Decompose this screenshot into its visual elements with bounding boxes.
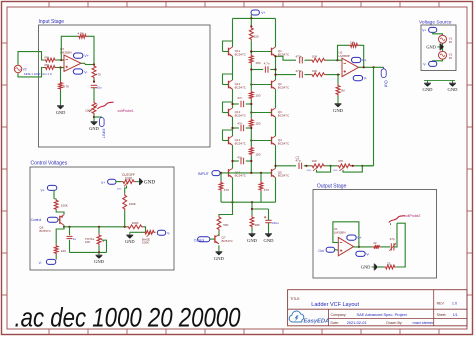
wire tail to 180 and 220u xyxy=(252,202,269,209)
wire U2 output xyxy=(359,66,384,68)
wire 560 to Q7 collector xyxy=(218,231,220,236)
resistor 10K upper xyxy=(311,58,327,62)
svg-text:22: 22 xyxy=(373,241,377,245)
control bottom wire xyxy=(70,251,107,253)
svg-text:GND: GND xyxy=(144,180,155,186)
wire 470 to cap 10u xyxy=(93,79,95,83)
svg-text:BC547C: BC547C xyxy=(235,174,247,178)
svg-text:Sheet:: Sheet: xyxy=(437,313,447,317)
capacitor 47n boundary C xyxy=(233,127,239,129)
wire to BASE pot xyxy=(143,227,145,233)
resistor 150 ladder D xyxy=(249,146,253,156)
svg-text:INPUT: INPUT xyxy=(102,129,106,139)
Input Stage section box xyxy=(39,25,211,147)
center rail segment C-D xyxy=(250,128,252,146)
wire tap lower to 470n xyxy=(276,74,297,76)
svg-text:47p: 47p xyxy=(296,159,301,163)
svg-text:GND: GND xyxy=(214,256,225,261)
control summing wire xyxy=(64,226,127,228)
svg-text:470: 470 xyxy=(264,188,269,192)
svg-text:10K: 10K xyxy=(312,55,317,59)
svg-text:TITLE:: TITLE: xyxy=(290,297,300,301)
resistor 10K lower xyxy=(311,73,327,77)
svg-text:LM358P: LM358P xyxy=(338,54,350,58)
svg-text:Out: Out xyxy=(318,249,323,253)
center rail segment B-C xyxy=(250,100,252,118)
resistor 4.7K feedback xyxy=(78,34,88,38)
wire Q6 collector node xyxy=(63,225,65,227)
svg-text:150: 150 xyxy=(255,152,260,156)
net flag INPUT (vertical) in input stage xyxy=(94,116,102,118)
transistor Q15 BC547C (left ladder) xyxy=(228,169,230,177)
ground below 1M xyxy=(337,101,339,103)
svg-text:V+: V+ xyxy=(261,11,265,15)
base wire Q2 to center rail xyxy=(251,84,271,86)
svg-text:maxi steiner: maxi steiner xyxy=(413,320,435,325)
capacitor 470n upper xyxy=(299,57,301,63)
svg-text:1M: 1M xyxy=(340,88,345,92)
wire tap upper to 470n xyxy=(276,56,297,60)
transistor Q5 BC547C (right ladder) xyxy=(271,169,273,177)
resistor 470 output load xyxy=(92,65,96,80)
EasyEDA logo xyxy=(289,311,304,322)
return wire loop output stage xyxy=(396,223,405,267)
wiper wire 47K pot xyxy=(343,166,362,172)
wire U3 output xyxy=(81,62,85,64)
svg-text:INPUT: INPUT xyxy=(198,172,210,176)
wire Q5 collector to chain xyxy=(276,165,297,167)
right column top wire xyxy=(275,18,277,47)
svg-text:V-: V- xyxy=(167,231,170,235)
potentiometer 10K resonance xyxy=(311,164,326,168)
svg-text:1/1: 1/1 xyxy=(453,313,458,317)
voltage source V2 sine input xyxy=(14,65,21,72)
svg-text:2021-02-01: 2021-02-01 xyxy=(347,320,367,325)
svg-text:Output Stage: Output Stage xyxy=(317,184,347,190)
svg-text:47p: 47p xyxy=(390,237,395,241)
transistor Q13 BC547C (left ladder) xyxy=(228,109,230,117)
svg-text:BC547C: BC547C xyxy=(278,85,290,89)
Voltage Source section box xyxy=(421,25,456,71)
Control Voltages section box xyxy=(30,167,174,270)
ground pair below voltage source xyxy=(424,79,455,81)
frame column ticks bottom xyxy=(48,329,50,335)
svg-text:470: 470 xyxy=(96,73,101,77)
svg-text:100K: 100K xyxy=(61,204,68,208)
wire cap to potentiometer 100K xyxy=(93,88,95,101)
svg-text:220: 220 xyxy=(61,249,66,253)
wire 47p to top node xyxy=(394,223,397,247)
wiper wire TOTAL pot xyxy=(103,240,107,252)
node inverting input U3 xyxy=(60,59,62,61)
resistor 47K input upper xyxy=(44,58,57,62)
diode loop wire Q14 xyxy=(223,130,233,141)
feedback loop U2 with resistor 1M xyxy=(338,45,350,60)
svg-text:V-: V- xyxy=(39,261,42,265)
resistor 560 current source xyxy=(217,216,221,232)
svg-text:50%: 50% xyxy=(117,189,121,191)
frame row ticks right xyxy=(467,42,473,44)
resistor 220 control xyxy=(54,244,58,255)
svg-text:560: 560 xyxy=(223,223,228,227)
capacitor 220u electrolytic xyxy=(265,219,271,221)
center rail segment top xyxy=(250,41,252,54)
ground mid (sideways) xyxy=(437,46,439,48)
left column inter-row wires xyxy=(232,56,234,80)
svg-text:GND: GND xyxy=(89,126,99,131)
voltage probe voltProbe2 xyxy=(389,216,405,223)
wire BASE pot left to ground xyxy=(130,231,144,233)
svg-text:10K: 10K xyxy=(312,159,317,163)
svg-text:1u: 1u xyxy=(73,237,77,241)
transistor Q12 BC547C (left ladder) xyxy=(228,81,230,89)
wire 100K to Q6 xyxy=(56,211,64,215)
svg-text:V2: V2 xyxy=(23,68,27,72)
capacitor 4.7n boundary A xyxy=(251,69,263,71)
svg-text:GND: GND xyxy=(426,44,436,49)
svg-text:10u: 10u xyxy=(97,86,102,90)
ground below Q7 xyxy=(218,249,220,251)
ground control mid xyxy=(98,252,100,254)
svg-text:150: 150 xyxy=(255,122,260,126)
svg-text:GND: GND xyxy=(247,238,258,243)
wiper wire 10K pot xyxy=(317,166,331,172)
svg-text:50%: 50% xyxy=(307,170,311,172)
svg-text:47K: 47K xyxy=(338,159,343,163)
svg-text:220u: 220u xyxy=(272,221,279,225)
wire U1 output xyxy=(354,246,373,248)
svg-text:SAE Advanced Spec. Project: SAE Advanced Spec. Project xyxy=(357,312,408,317)
svg-text:10K: 10K xyxy=(85,240,90,244)
wire pot to GND xyxy=(93,115,95,119)
svg-text:V+: V+ xyxy=(357,236,362,240)
power flag V- base xyxy=(157,230,165,235)
resistor 100K control upper xyxy=(54,199,58,211)
potentiometer TOTAL 10K xyxy=(98,227,100,234)
svg-text:V+: V+ xyxy=(362,59,367,63)
voltage probe voltProbe1 xyxy=(98,102,114,109)
transistor Q14 BC547C (left ladder) xyxy=(228,137,230,145)
svg-text:470n: 470n xyxy=(296,69,303,73)
svg-text:GND: GND xyxy=(448,87,459,92)
wire V+ to V1 xyxy=(433,32,443,35)
svg-text:GND: GND xyxy=(125,239,135,244)
diode loop wire Q13 xyxy=(223,102,233,113)
resistor 150 ladder C xyxy=(249,118,253,128)
center rail segment A-B xyxy=(250,65,252,91)
svg-text:100K: 100K xyxy=(125,176,133,180)
center rail segment bottom xyxy=(250,156,252,173)
svg-text:GND: GND xyxy=(361,264,371,269)
diode loop wire Q11 xyxy=(223,41,233,52)
svg-text:Control Voltages: Control Voltages xyxy=(31,161,68,167)
wire tail node xyxy=(220,192,222,203)
trimmer capacitor 47p output xyxy=(390,243,392,250)
svg-text:SINE 1 1000 10m 1.0: SINE 1 1000 10m 1.0 xyxy=(24,72,52,76)
base wire Q3 to center rail xyxy=(251,112,271,114)
transistor Q11 BC547C (left ladder) xyxy=(228,48,230,56)
mid node wire xyxy=(442,43,444,51)
wire INPUT to ladder bottom bases xyxy=(220,172,271,174)
svg-text:V-: V- xyxy=(423,62,426,66)
power flag V+ ladder top xyxy=(251,10,259,15)
wiper wire CUTOFF to 100K vertical xyxy=(125,186,127,194)
svg-text:10K: 10K xyxy=(312,69,317,73)
base wire Q4 to center rail xyxy=(251,140,271,142)
svg-text:V+: V+ xyxy=(101,181,105,185)
wire 180 to ground xyxy=(251,228,253,231)
resistor 470 left tail xyxy=(220,173,222,181)
wire 47K to op-amp inputs xyxy=(57,59,65,61)
source V2 16 xyxy=(439,51,447,59)
svg-text:100K: 100K xyxy=(142,241,149,245)
svg-text:180: 180 xyxy=(255,223,260,227)
svg-text:BC557C: BC557C xyxy=(39,229,51,233)
capacitor 47n boundary D xyxy=(233,160,239,162)
svg-text:GND: GND xyxy=(333,108,344,113)
wire 4.7K to ground xyxy=(60,91,62,104)
svg-text:V+: V+ xyxy=(84,54,89,58)
capacitor 47n boundary B xyxy=(233,103,239,105)
svg-text:4.7n: 4.7n xyxy=(264,61,270,65)
ground below 180 xyxy=(251,231,253,233)
wire V2 top to input resistor R 47K#1 xyxy=(18,52,44,65)
svg-text:47n: 47n xyxy=(237,155,242,159)
wire to resistor 560 xyxy=(219,202,233,215)
svg-text:22: 22 xyxy=(387,261,391,265)
base wire Q1 to center rail xyxy=(251,51,271,53)
transistor Q7 BC547C tail driver xyxy=(214,235,216,243)
svg-text:GND: GND xyxy=(264,238,275,243)
resistor 470 right tail xyxy=(260,173,262,181)
svg-text:BC547C: BC547C xyxy=(235,113,247,117)
svg-text:GND: GND xyxy=(56,110,66,115)
svg-text:Drawn By:: Drawn By: xyxy=(386,321,402,325)
svg-text:47K: 47K xyxy=(44,63,49,67)
svg-text:voltProbe1: voltProbe1 xyxy=(118,109,134,113)
svg-text:BC547C: BC547C xyxy=(278,52,290,56)
left emitter to tail xyxy=(232,178,234,203)
svg-text:V+: V+ xyxy=(422,28,426,32)
frame row ticks left xyxy=(2,42,8,44)
resistor 150 ladder B xyxy=(249,90,253,100)
svg-text:1M: 1M xyxy=(350,40,355,44)
resistor 150 ladder A xyxy=(249,54,253,65)
op-amp U2 LM358P xyxy=(342,58,359,76)
transistor Q3 BC547C (right ladder) xyxy=(271,109,273,117)
capacitor 10u xyxy=(91,84,97,86)
wire V2 bottom to input resistor R 47K#2 xyxy=(18,68,44,77)
svg-text:voltProbe2: voltProbe2 xyxy=(404,214,420,218)
potentiometer 100K output level xyxy=(92,101,96,115)
svg-text:50%: 50% xyxy=(333,170,337,172)
resistor 100K cutoff vertical xyxy=(123,194,127,211)
svg-text:BC547C: BC547C xyxy=(235,141,247,145)
power flag V- of U1 xyxy=(356,251,365,256)
transistor Q2 BC547C (right ladder) xyxy=(271,81,273,89)
svg-text:BC547C: BC547C xyxy=(278,174,290,178)
capacitor 470n lower xyxy=(299,71,301,77)
svg-text:220: 220 xyxy=(254,34,259,38)
potentiometer CUTOFF 100K xyxy=(122,180,136,184)
svg-text:16: 16 xyxy=(449,56,453,60)
diode loop wire Q12 xyxy=(223,74,233,85)
svg-text:BC547C: BC547C xyxy=(222,239,234,243)
svg-text:100K: 100K xyxy=(129,202,136,206)
transistor Q6 BC557C (PNP) xyxy=(59,216,61,224)
wire Q7 emitter to ground xyxy=(218,245,220,249)
svg-text:Ladder VCF Layout: Ladder VCF Layout xyxy=(311,302,359,308)
resistor 180 tail xyxy=(250,216,254,229)
svg-text:470n: 470n xyxy=(296,55,303,59)
resistor 220 ladder top xyxy=(249,26,253,41)
potentiometer 47K resonance xyxy=(337,164,352,168)
svg-text:Input Stage: Input Stage xyxy=(39,19,65,25)
ground right of CUTOFF xyxy=(136,181,137,183)
source V1 16 xyxy=(439,35,447,43)
svg-text:EasyEDA: EasyEDA xyxy=(304,319,330,325)
op-amp U3 LM358N xyxy=(64,55,81,72)
svg-text:BC547C: BC547C xyxy=(278,141,290,145)
ladder top rail wire xyxy=(233,17,276,19)
svg-text:REV: REV xyxy=(437,302,445,306)
ground below 220u xyxy=(268,231,270,233)
wire V+ to resistor 220 xyxy=(250,18,252,26)
svg-text:100K: 100K xyxy=(132,221,139,225)
svg-text:GND: GND xyxy=(94,259,105,264)
resistor 1M to ground from U2 plus input xyxy=(337,74,339,76)
power flag V- of U3 xyxy=(73,69,82,74)
svg-text:150: 150 xyxy=(255,94,260,98)
capacitor 1u control xyxy=(69,227,71,235)
power flag V- control xyxy=(55,255,57,260)
net flag Out vertical at U2 output xyxy=(381,69,386,78)
title block outline xyxy=(288,290,467,326)
svg-text:Date:: Date: xyxy=(331,321,339,325)
svg-text:GND: GND xyxy=(423,87,434,92)
node non-inverting input U3 xyxy=(59,66,61,68)
ground below potentiometer xyxy=(93,119,95,121)
feedback wire U1 xyxy=(333,222,359,247)
resistor 22 output xyxy=(372,245,381,249)
Output Stage section box xyxy=(313,190,437,279)
transistor Q4 BC547C (right ladder) xyxy=(271,137,273,145)
svg-text:BC547C: BC547C xyxy=(235,52,247,56)
power flag V- source xyxy=(433,59,443,61)
svg-text:16: 16 xyxy=(449,40,453,44)
svg-text:47n: 47n xyxy=(237,122,242,126)
capacitor C3 47p xyxy=(298,163,300,169)
power flag V- of U2 xyxy=(353,76,362,81)
svg-text:Control: Control xyxy=(31,218,42,222)
ground below BASE pot wire xyxy=(129,232,131,234)
ground below 4.7K xyxy=(60,103,62,105)
resistor 22 to ground output xyxy=(384,265,396,269)
svg-text:Company:: Company: xyxy=(331,313,347,317)
ground sideways output stage xyxy=(378,266,384,268)
svg-text:1.0: 1.0 xyxy=(452,302,457,306)
resistor 47K input lower xyxy=(44,66,57,70)
svg-text:47n: 47n xyxy=(237,96,242,100)
svg-text:BC547C: BC547C xyxy=(278,113,290,117)
feedback wire U3 xyxy=(61,36,77,60)
feedback bus wire down from U2 output xyxy=(373,67,375,166)
op-amp U1 LM358N xyxy=(338,237,353,255)
svg-text:4.7K: 4.7K xyxy=(78,31,84,35)
power flag V+ of U1 xyxy=(347,235,356,240)
resistor 1M feedback U2 xyxy=(349,43,359,47)
svg-text:V+: V+ xyxy=(41,188,45,192)
svg-text:BC547C: BC547C xyxy=(235,85,247,89)
svg-text:4.7K: 4.7K xyxy=(63,84,69,88)
svg-text:Voltage Source: Voltage Source xyxy=(419,20,452,26)
resistor 100K horizontal xyxy=(127,225,144,229)
svg-text:.ac dec 1000 20 20000: .ac dec 1000 20 20000 xyxy=(15,302,241,332)
potentiometer BASE 100K xyxy=(144,230,156,234)
wire 100K vertical to summing node xyxy=(124,211,126,227)
transistor Q1 BC547C (right ladder) xyxy=(271,48,273,56)
frame column ticks top xyxy=(48,2,50,8)
resistor 4.7K to ground from non-inverting input xyxy=(60,68,62,82)
svg-text:LM358N: LM358N xyxy=(334,231,346,235)
svg-text:470: 470 xyxy=(224,188,229,192)
power flag V+ of U3 xyxy=(74,53,83,58)
svg-text:Out: Out xyxy=(384,80,389,88)
power flag V+ of U2 xyxy=(352,57,361,62)
right column inter-row wires xyxy=(275,56,277,80)
svg-text:150: 150 xyxy=(255,61,260,65)
svg-text:47K: 47K xyxy=(44,55,49,59)
left column top wire xyxy=(232,18,234,47)
